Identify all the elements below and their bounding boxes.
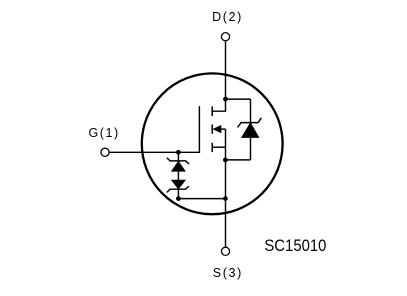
terminal pin S(3) <box>221 247 229 255</box>
body zener diode anode triangle <box>242 123 259 137</box>
mosfet channel segment (drain) <box>211 106 213 116</box>
wire: Z1 anode to Z2 anode <box>177 171 179 180</box>
mosfet gate electrode bar <box>198 106 200 153</box>
node: source-zener junction <box>223 196 228 201</box>
svg-text:D(2): D(2) <box>212 10 241 24</box>
mosfet channel segment (source) <box>211 143 213 152</box>
node: source junction <box>223 158 228 163</box>
mosfet body arrow <box>213 126 221 133</box>
svg-text:S(3): S(3) <box>213 266 242 280</box>
zener Z1 cathode bar <box>167 158 188 163</box>
zener Z2 anode triangle <box>172 180 186 189</box>
wire: D terminal to drain node <box>225 41 227 99</box>
wire: body diode to source node <box>225 159 250 161</box>
mosfet body stub <box>221 128 226 130</box>
zener Z2 cathode bar <box>167 187 188 193</box>
svg-text:SC15010: SC15010 <box>264 236 326 255</box>
wire: Z2 cathode lead <box>177 189 179 198</box>
wire: zener string to source wire <box>178 198 225 200</box>
mosfet source stub <box>212 146 225 148</box>
wire: body diode cathode lead <box>250 99 252 123</box>
mosfet drain stub <box>212 99 225 111</box>
wire: drain node to body diode <box>226 98 251 100</box>
node: drain junction <box>223 97 228 102</box>
body zener diode cathode bar <box>238 118 261 127</box>
node: zener bottom junction <box>176 196 181 201</box>
zener Z1 anode triangle <box>172 162 186 172</box>
wire: body/source vertical to S terminal <box>225 129 227 247</box>
mosfet channel segment (body) <box>211 124 213 133</box>
wire: gate wire from G terminal <box>110 151 200 153</box>
terminal pin G(1) <box>101 148 109 156</box>
node: gate junction <box>176 150 181 155</box>
terminal pin D(2) <box>221 33 229 41</box>
transistor envelope circle <box>142 73 283 214</box>
wire: gate junction to zener Z1 <box>177 152 179 162</box>
svg-text:G(1): G(1) <box>89 126 119 140</box>
wire: body diode anode lead <box>250 137 252 160</box>
